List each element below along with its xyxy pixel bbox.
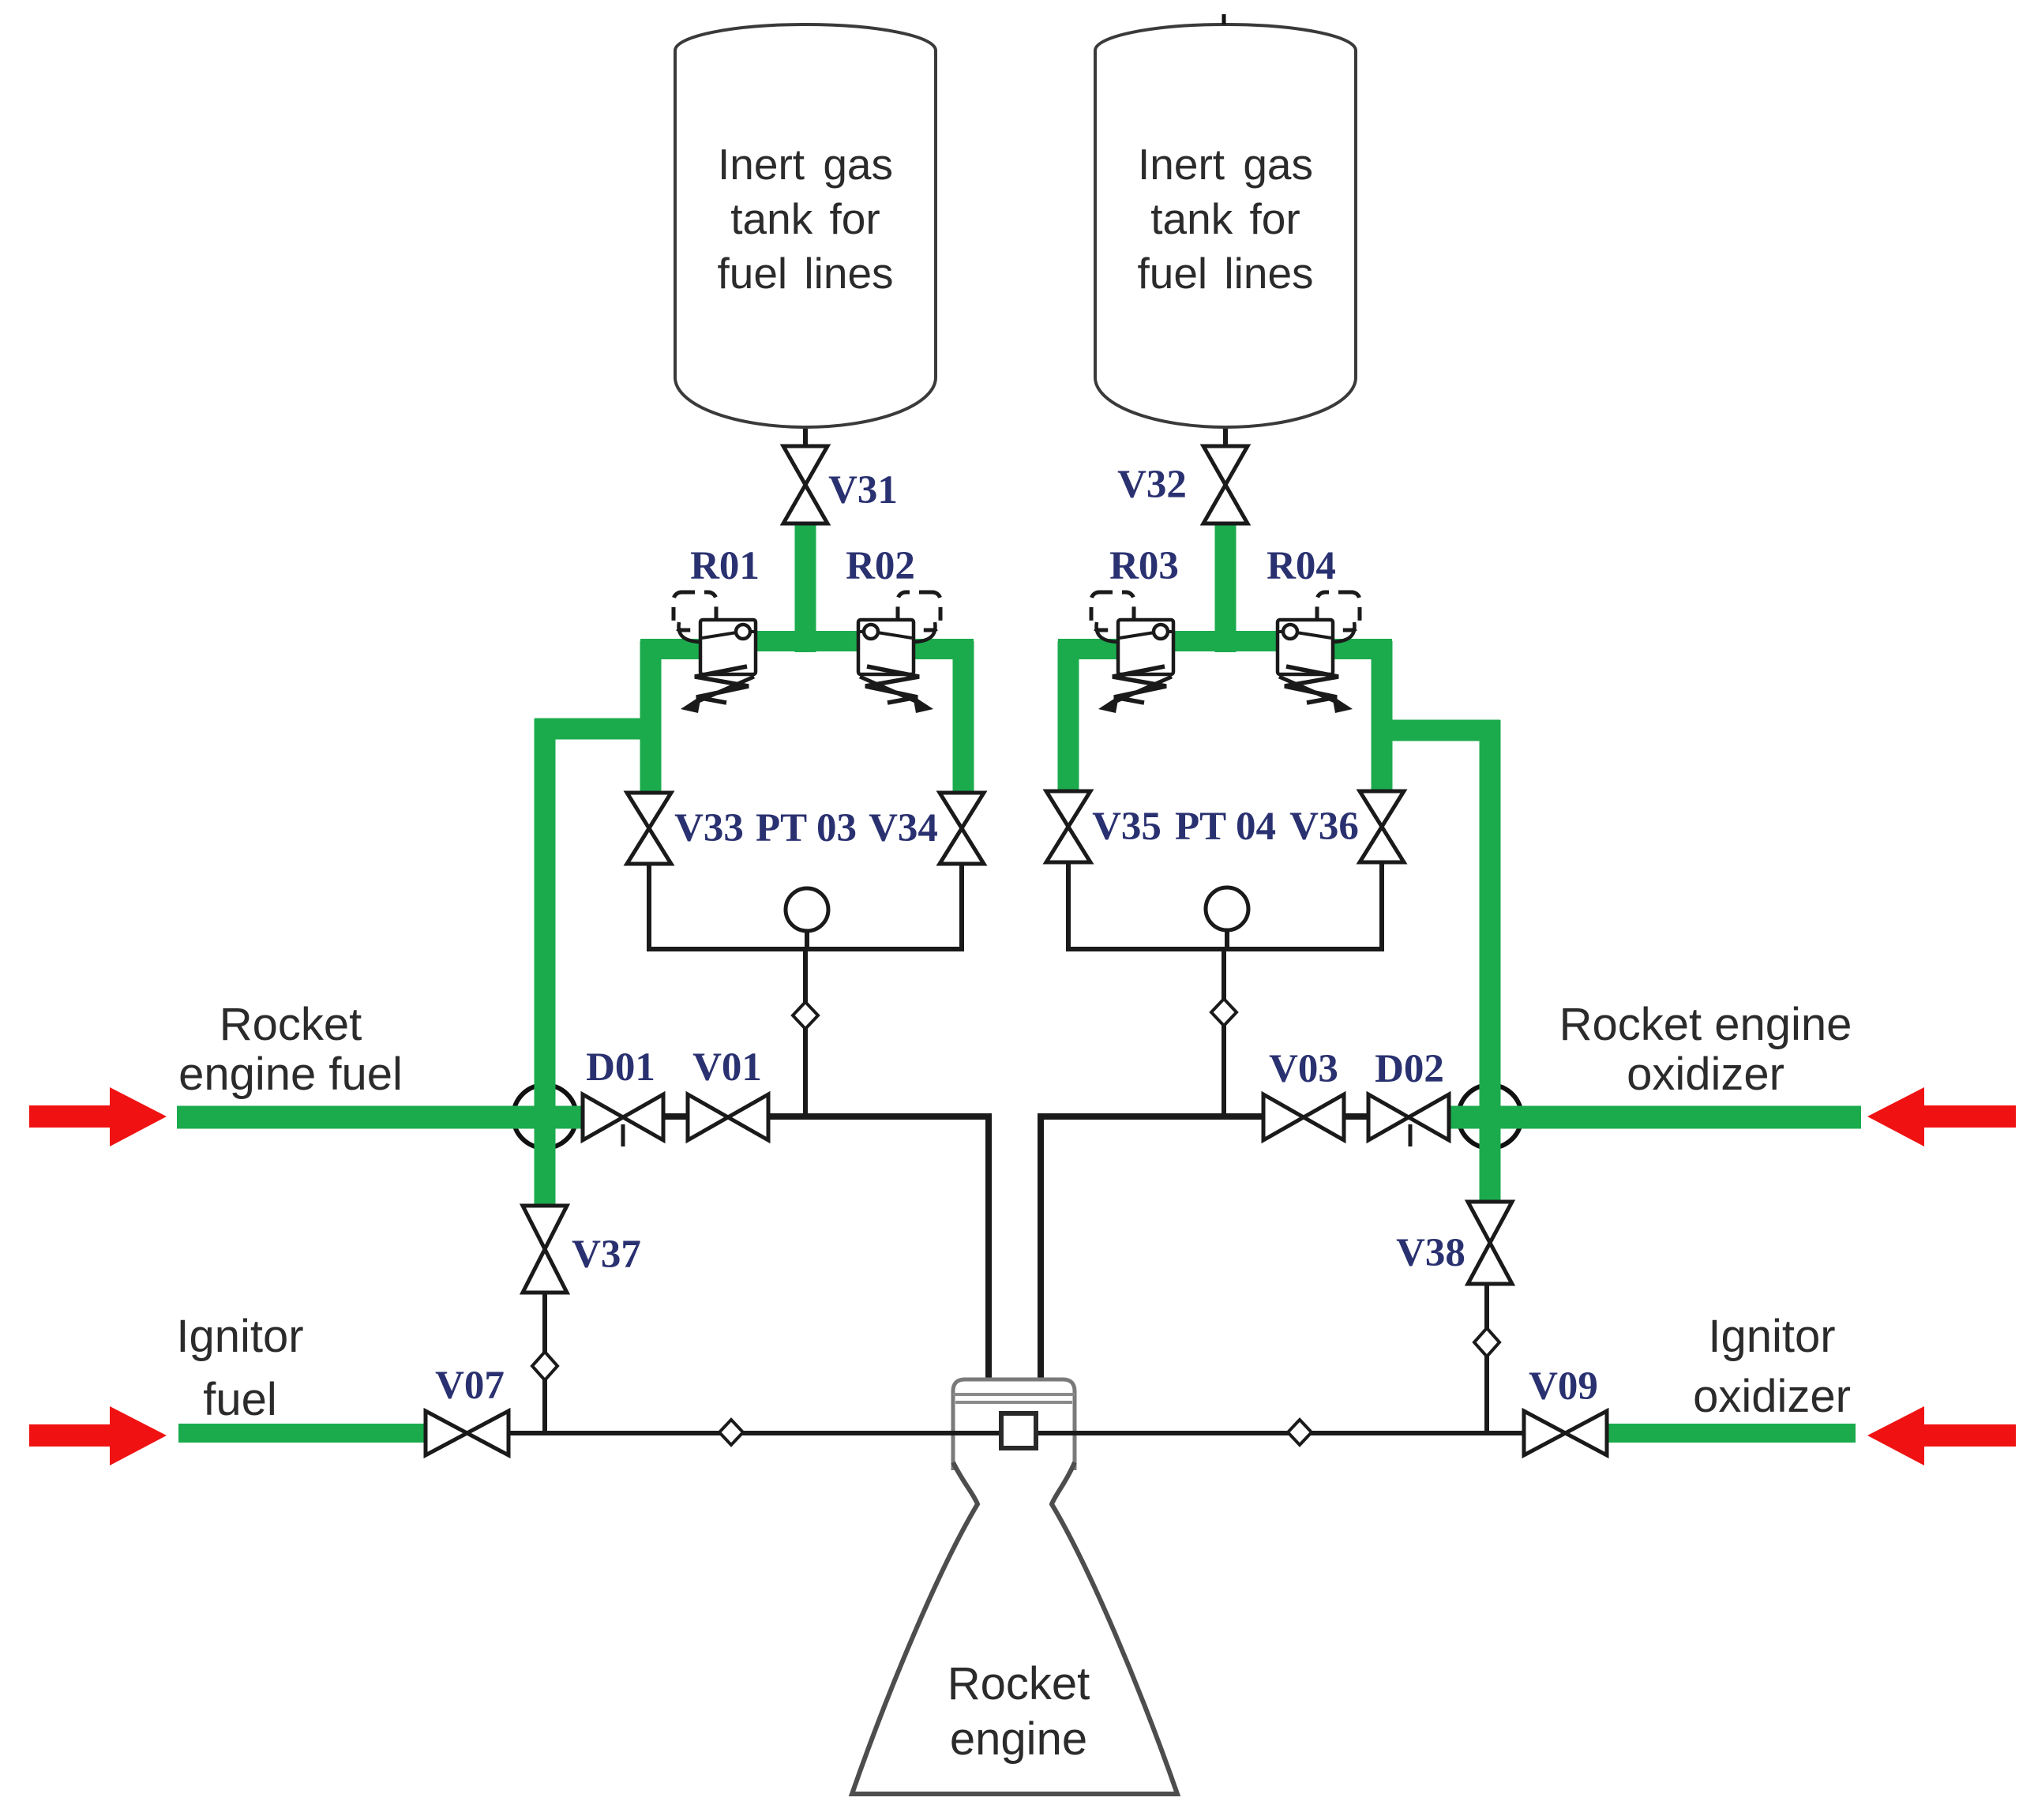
wire PT03 manifold xyxy=(649,864,962,949)
wire ignitor line through engine xyxy=(940,1431,1090,1435)
svg-text:Ignitor: Ignitor xyxy=(1708,1311,1835,1362)
valve V33 xyxy=(627,793,671,864)
valve V37 xyxy=(523,1206,567,1293)
svg-text:R02: R02 xyxy=(846,544,915,588)
svg-text:V03: V03 xyxy=(1269,1047,1338,1091)
svg-text:engine: engine xyxy=(950,1713,1087,1765)
wire purge branch right horizontal (green) xyxy=(1372,720,1500,741)
svg-text:fuel lines: fuel lines xyxy=(717,249,893,298)
svg-text:V07: V07 xyxy=(435,1364,505,1408)
svg-text:Inert gas: Inert gas xyxy=(1138,140,1313,189)
valve V34 xyxy=(940,793,984,864)
wire tank2 outlet stub xyxy=(1223,422,1228,448)
valve V09 xyxy=(1524,1411,1607,1455)
svg-text:V36: V36 xyxy=(1289,805,1359,849)
node B : oxidizer cross junction circle xyxy=(1458,1085,1522,1148)
flow arrow ignitor fuel inlet xyxy=(29,1406,167,1465)
regulator R02 xyxy=(846,544,940,713)
check valve node on fuel PT drop xyxy=(793,1002,818,1029)
svg-text:PT 03: PT 03 xyxy=(756,806,857,850)
valve V36 xyxy=(1360,791,1404,862)
wire tank1 outlet stub xyxy=(803,422,808,448)
rocket engine injector assembly xyxy=(953,1379,1075,1470)
flow arrow oxidizer inlet xyxy=(1867,1087,2016,1146)
svg-text:R04: R04 xyxy=(1267,544,1336,588)
svg-text:V09: V09 xyxy=(1529,1364,1598,1409)
svg-text:Inert gas: Inert gas xyxy=(718,140,893,189)
regulator R01 xyxy=(674,544,760,713)
svg-text:oxidizer: oxidizer xyxy=(1627,1049,1784,1100)
wire R04 output to right elbow (green) xyxy=(1320,639,1392,659)
check valve node on oxidizer PT drop xyxy=(1211,999,1237,1026)
wire rocket engine oxidizer main (green) xyxy=(1450,1106,1861,1129)
valve V35 xyxy=(1046,791,1090,862)
svg-text:fuel: fuel xyxy=(203,1374,277,1425)
svg-text:tank for: tank for xyxy=(730,194,880,243)
wire PT04 manifold xyxy=(1068,862,1382,949)
node A : fuel cross junction circle xyxy=(513,1085,576,1148)
svg-text:Rocket: Rocket xyxy=(948,1658,1090,1709)
svg-text:V34: V34 xyxy=(869,806,938,850)
wire regulator input header R03-R04 (green) xyxy=(1162,631,1289,651)
tank T2 inert gas tank for fuel lines (right) xyxy=(1095,14,1356,427)
engine ignitor port square xyxy=(1001,1413,1036,1448)
valve V32 xyxy=(1203,446,1248,523)
pressure transducer PT 03 xyxy=(786,888,828,931)
check valve node on ignitor line left xyxy=(719,1420,743,1445)
svg-text:PT 04: PT 04 xyxy=(1175,805,1276,849)
svg-text:R03: R03 xyxy=(1109,544,1179,588)
wire V37 down to ignitor fuel line xyxy=(542,1293,547,1433)
svg-text:V37: V37 xyxy=(572,1233,641,1277)
svg-text:V35: V35 xyxy=(1092,805,1161,849)
valve D02 xyxy=(1368,1094,1449,1140)
wire right elbow down to V34 (green) xyxy=(953,641,974,793)
wire V31 to regulator tee (green) xyxy=(795,523,816,652)
check valve node below V37 xyxy=(532,1352,557,1380)
valve D01 xyxy=(583,1094,663,1140)
svg-text:Rocket: Rocket xyxy=(220,999,362,1050)
wire PT03 to manifold xyxy=(805,930,809,949)
wire purge drop to oxidizer line and V38 (green) xyxy=(1480,720,1501,1202)
wire purge drop to fuel line and V37 (green) xyxy=(535,719,556,1206)
svg-text:V01: V01 xyxy=(692,1045,762,1090)
svg-text:oxidizer: oxidizer xyxy=(1693,1371,1851,1422)
wire left elbow down to V35 (green) xyxy=(1058,641,1079,793)
wire V32 to regulator tee (green) xyxy=(1215,523,1237,652)
valve V07 xyxy=(426,1411,508,1455)
valve V03 xyxy=(1263,1094,1344,1140)
wire ignitor oxidizer inlet (green) xyxy=(1606,1424,1856,1443)
wire left elbow down to V33 (green) xyxy=(640,641,662,793)
wire PT04 to manifold xyxy=(1225,930,1229,949)
svg-text:tank for: tank for xyxy=(1150,194,1300,243)
check valve node below V38 xyxy=(1474,1328,1499,1357)
valve V31 xyxy=(783,446,827,523)
svg-text:Rocket engine: Rocket engine xyxy=(1559,999,1852,1050)
svg-text:Ignitor: Ignitor xyxy=(176,1311,303,1362)
wire V03-D02 link xyxy=(1342,1113,1372,1120)
wire rocket engine fuel main (green) xyxy=(177,1106,586,1129)
rocket engine nozzle bell xyxy=(852,1462,1177,1794)
wire R01 output to left elbow (green) xyxy=(640,639,711,659)
pressure transducer PT 04 xyxy=(1206,887,1248,930)
wire V03 to engine oxidizer downcomer xyxy=(1041,1116,1267,1380)
regulator R04 xyxy=(1267,544,1360,713)
svg-text:R01: R01 xyxy=(690,544,760,588)
wire D01-V01 link xyxy=(660,1113,691,1120)
wire V01 to engine fuel downcomer xyxy=(765,1116,989,1380)
regulator R03 xyxy=(1091,544,1179,713)
flow arrow fuel inlet xyxy=(29,1087,167,1146)
wire R02 output to right elbow (green) xyxy=(900,639,974,659)
wire purge branch left horizontal (green) xyxy=(535,719,661,740)
wire V38 down to ignitor oxidizer line xyxy=(1484,1284,1489,1433)
flow arrow ignitor oxidizer inlet xyxy=(1867,1406,2016,1465)
svg-text:V38: V38 xyxy=(1396,1231,1465,1275)
wire R03 output to left elbow (green) xyxy=(1058,639,1129,659)
svg-text:V31: V31 xyxy=(828,468,898,512)
wire regulator input header R01-R02 (green) xyxy=(742,631,869,651)
wire ignitor fuel/oxidizer line across engine xyxy=(505,1431,1527,1435)
svg-text:V33: V33 xyxy=(674,806,744,850)
svg-text:D02: D02 xyxy=(1375,1047,1444,1091)
valve V38 xyxy=(1468,1202,1512,1284)
wire ignitor fuel inlet (green) xyxy=(178,1424,428,1443)
valve V01 xyxy=(688,1094,768,1140)
svg-text:fuel lines: fuel lines xyxy=(1137,249,1313,298)
wire right elbow down to V36 (green) xyxy=(1372,641,1393,793)
svg-text:D01: D01 xyxy=(586,1045,655,1090)
check valve node on ignitor line right xyxy=(1288,1420,1312,1445)
wire manifold down to oxidizer valve line xyxy=(1222,949,1226,1116)
svg-text:engine fuel: engine fuel xyxy=(178,1049,403,1100)
svg-text:V32: V32 xyxy=(1117,463,1187,507)
tank T1 inert gas tank for fuel lines (left) xyxy=(675,24,936,427)
wire manifold down to fuel valve line xyxy=(803,949,808,1116)
